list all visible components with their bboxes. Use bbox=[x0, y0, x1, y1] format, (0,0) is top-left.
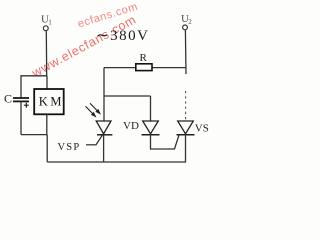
resistor R bbox=[136, 64, 152, 71]
wire capacitor top lead bbox=[20, 75, 22, 98]
wire VSP cathode to rail bbox=[103, 135, 105, 162]
wire node A to KM coil bbox=[46, 76, 48, 89]
terminal U2 label bbox=[181, 13, 192, 26]
thyristor VS bbox=[177, 121, 195, 135]
terminal U1 bbox=[43, 26, 48, 31]
svg-text:R: R bbox=[140, 52, 148, 64]
contactor coil KM bbox=[34, 89, 64, 114]
svg-text:2: 2 bbox=[188, 18, 192, 26]
wire U1 to node A bbox=[45, 31, 47, 76]
wire VSP anode branch bbox=[103, 68, 105, 121]
svg-text:∼380V: ∼380V bbox=[96, 28, 149, 44]
svg-text:KM: KM bbox=[39, 94, 64, 108]
wire KM coil bottom lead bbox=[46, 114, 48, 134]
svg-text:VSP: VSP bbox=[58, 142, 81, 153]
wire bottom of C to bottom of KM bbox=[21, 134, 47, 136]
wire U2 drop bbox=[184, 30, 187, 74]
terminal U1 label bbox=[41, 14, 52, 27]
svg-text:1: 1 bbox=[48, 19, 52, 27]
light arrows into VSP bbox=[86, 103, 100, 116]
VSP gate lead bbox=[86, 134, 103, 144]
svg-text:VD: VD bbox=[123, 120, 139, 132]
capacitor C bbox=[13, 98, 29, 101]
wire node A to capacitor branch bbox=[21, 75, 47, 77]
wire VD branch horizontal bbox=[104, 95, 151, 97]
wire bottom rail bbox=[47, 161, 186, 163]
terminal U2 bbox=[183, 25, 188, 30]
diode VD bbox=[142, 121, 160, 135]
wire VS anode dashed bbox=[185, 91, 187, 121]
wire capacitor bottom lead bbox=[20, 102, 22, 135]
photothyristor VSP bbox=[96, 121, 112, 135]
capacitor polarity + bbox=[24, 103, 29, 108]
wire VD anode drop bbox=[150, 96, 152, 121]
wire VD cathode to VS gate bbox=[151, 135, 180, 149]
svg-text:C: C bbox=[4, 92, 12, 106]
wire resistor rail bbox=[104, 67, 186, 69]
wire VS cathode to rail bbox=[185, 135, 187, 162]
svg-text:VS: VS bbox=[195, 122, 209, 134]
wire left branch to bottom rail bbox=[46, 135, 48, 162]
